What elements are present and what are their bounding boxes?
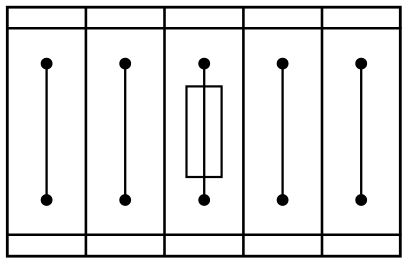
terminal 3 bottom contact: [198, 194, 210, 206]
fuse F1: [187, 86, 222, 177]
terminal 1 bottom contact: [41, 194, 53, 206]
terminal 5 wire: [360, 64, 362, 200]
terminal 4 top contact: [277, 58, 289, 70]
terminal 3 top contact: [198, 58, 210, 70]
terminal 1 wire: [45, 64, 47, 200]
partition 1: [85, 6, 88, 258]
bottom marking strip line: [6, 234, 402, 237]
partition 4: [321, 6, 324, 258]
partition 3: [242, 6, 245, 258]
terminal 1 top contact: [41, 58, 53, 70]
top marking strip line: [6, 27, 402, 30]
terminal 2 wire: [124, 64, 126, 200]
terminal 4 wire: [281, 64, 283, 200]
terminal 2 bottom contact: [119, 194, 131, 206]
terminal 2 top contact: [119, 58, 131, 70]
terminal 4 bottom contact: [277, 194, 289, 206]
terminal 5 bottom contact: [355, 194, 367, 206]
partition 2: [163, 6, 166, 258]
terminal 5 top contact: [355, 58, 367, 70]
terminal 3 wire: [203, 64, 205, 200]
